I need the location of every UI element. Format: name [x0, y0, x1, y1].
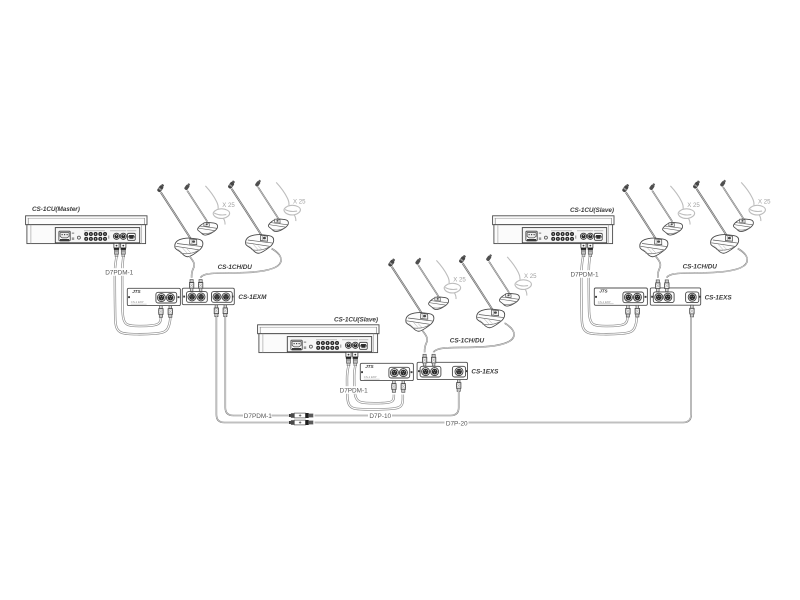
svg-text:D7P-20: D7P-20	[446, 421, 468, 428]
svg-text:D7PDM-1: D7PDM-1	[571, 272, 599, 279]
mic cord from big unit A1 to CS-1EXM	[190, 249, 282, 278]
connector pair on D7P-20	[289, 420, 313, 425]
label D7PDM-1 (master)	[104, 268, 135, 276]
svg-text:CS-1CU(Slave): CS-1CU(Slave)	[334, 317, 378, 324]
connector pair on D7P-10	[289, 413, 313, 418]
extension unit CS-1EXM : main box	[182, 280, 234, 317]
svg-text:D7PDM-1: D7PDM-1	[105, 270, 133, 277]
extension unit CS-1EXS (center) : JTS box	[360, 363, 413, 392]
cable D7PDM-1 loop from master CU to CS-1EXM input	[115, 257, 171, 334]
microphone cluster B (above center CS-1EXS)	[388, 257, 467, 331]
svg-text:CS-1CU(Slave): CS-1CU(Slave)	[570, 207, 614, 214]
extension unit CS-1EXS (right) : JTS box	[594, 288, 647, 317]
svg-text:CS-1EXS: CS-1EXS	[471, 368, 499, 375]
svg-text:D7PDM-1: D7PDM-1	[244, 413, 272, 420]
svg-text:CS-1EXM: CS-1EXM	[238, 294, 267, 301]
svg-text:CS-1CH/DU: CS-1CH/DU	[683, 264, 718, 271]
wire: EXM left plug down to bus line 2	[216, 317, 288, 423]
cable D7PDM-1 loop from center slave CU to CS-1EXS input	[347, 366, 403, 410]
svg-text:CS-1CH/DU: CS-1CH/DU	[450, 338, 485, 345]
svg-text:CS-1CU(Master): CS-1CU(Master)	[32, 206, 80, 213]
extension unit CS-1EXM : JTS box	[127, 288, 180, 317]
microphone cluster A (above CS-1EXM)	[157, 183, 236, 257]
control unit CS-1CU(Slave) right	[493, 216, 614, 257]
trunk cable D7P-10 from CS-1EXM to center CS-1EXS	[225, 317, 458, 419]
label D7PDM-1 (center)	[339, 386, 370, 394]
control unit CS-1CU(Master)	[26, 216, 147, 257]
wire: bus line 2 segments	[315, 422, 445, 424]
svg-text:CS-1EXS: CS-1EXS	[705, 294, 733, 301]
microphone cluster C (above right CS-1EXS)	[622, 183, 701, 257]
trunk cable D7P-20 from CS-1EXM to right CS-1EXS	[216, 317, 691, 426]
label D7PDM-1 (right)	[570, 270, 601, 278]
wire: EXM right plug down to bus line 1	[225, 317, 243, 416]
svg-text:D7PDM-1: D7PDM-1	[340, 388, 368, 395]
control unit CS-1CU(Slave) center	[258, 325, 379, 366]
mic cord from cluster B to center CS-1EXS	[423, 323, 515, 352]
extension unit CS-1EXS (center) : main box	[417, 354, 467, 391]
mic cord from cluster C to right CS-1EXS	[656, 249, 748, 278]
extension unit CS-1EXS (right) : main box	[650, 280, 700, 317]
svg-text:CS-1CH/DU: CS-1CH/DU	[218, 264, 253, 271]
svg-text:D7P-10: D7P-10	[369, 413, 391, 420]
cable D7PDM-1 loop from right slave CU to CS-1EXS input	[581, 257, 637, 334]
wire: bus line 1 segments	[272, 415, 289, 417]
